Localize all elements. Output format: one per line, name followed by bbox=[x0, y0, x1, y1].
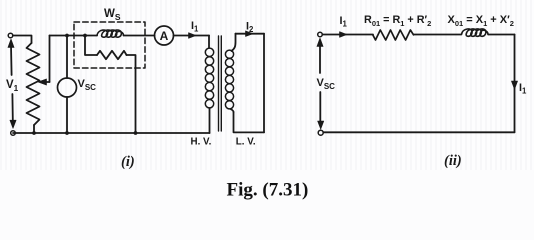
svg-text:A: A bbox=[160, 29, 169, 43]
terminal top-left (ii) bbox=[318, 32, 323, 37]
label V1 bbox=[6, 79, 19, 93]
transformer primary winding (H.V.) bbox=[205, 48, 213, 108]
wire: Vsc top lead bbox=[66, 36, 68, 79]
caption Fig. (7.31) bbox=[227, 180, 309, 201]
label R01 = R1 + R'2 bbox=[364, 14, 431, 28]
wattmeter pressure coil (zigzag) bbox=[97, 51, 127, 59]
arrow I2 bbox=[246, 31, 254, 37]
resistor R01 (zigzag) bbox=[373, 30, 414, 40]
voltmeter VSC bbox=[58, 78, 77, 97]
transformer core bbox=[219, 36, 222, 131]
label I1 right (ii) bbox=[519, 82, 527, 96]
node: Vsc tap bbox=[65, 34, 69, 38]
arrow I1 down (ii) bbox=[511, 81, 517, 89]
svg-text:Fig. (7.31): Fig. (7.31) bbox=[227, 180, 309, 201]
rheostat wiper arrow and feed wire bbox=[38, 36, 50, 86]
label I1 bbox=[191, 20, 199, 34]
inductor X01 (coil) bbox=[462, 29, 489, 36]
wattmeter pressure branch wire bbox=[85, 36, 97, 56]
right side wire with I1 arrow bbox=[514, 35, 516, 133]
label (ii) bbox=[444, 153, 462, 169]
svg-text:X01 = X1 + X′2: X01 = X1 + X′2 bbox=[448, 14, 514, 28]
label A bbox=[160, 29, 169, 43]
supply terminal top-left bbox=[8, 33, 13, 38]
V1 double-headed arrow line bbox=[8, 39, 16, 128]
node: Vsc bottom bbox=[65, 131, 69, 135]
label VSC (ii) bbox=[317, 77, 336, 91]
bottom wire (ii) bbox=[324, 131, 515, 133]
bottom rail wire bbox=[13, 132, 210, 134]
svg-text:H. V.: H. V. bbox=[191, 137, 212, 148]
arrow I1 (ii) bbox=[340, 32, 348, 38]
transformer secondary winding (L.V.) bbox=[225, 50, 233, 109]
label (i) bbox=[121, 154, 135, 170]
svg-text:(i): (i) bbox=[121, 154, 135, 170]
node: pressure coil bottom bbox=[134, 131, 138, 135]
wire: secondary short-circuit loop right side bbox=[263, 34, 265, 133]
wire: coil to box edge bbox=[124, 35, 155, 37]
node: pressure coil tap bbox=[83, 34, 87, 38]
wire: secondary top with I2 arrow bbox=[236, 33, 265, 35]
svg-text:WS: WS bbox=[104, 8, 121, 22]
wire: rheostat bottom to bottom rail bbox=[33, 125, 35, 133]
wire: pressure coil to bottom rail bbox=[127, 55, 136, 133]
wattmeter current coil bbox=[97, 30, 123, 37]
wire: top terminal to rheostat top bbox=[13, 36, 32, 44]
svg-text:VSC: VSC bbox=[78, 78, 97, 92]
supply terminal bottom-left bbox=[11, 131, 16, 136]
wire: secondary bottom lead curve bbox=[231, 109, 234, 112]
wire: secondary bottom bbox=[234, 112, 265, 132]
svg-text:I2: I2 bbox=[246, 21, 254, 35]
arrow I1 bbox=[189, 33, 197, 39]
svg-text:L. V.: L. V. bbox=[236, 137, 256, 148]
label I2 bbox=[246, 21, 254, 35]
label I1 (ii) bbox=[340, 15, 348, 29]
label WS bbox=[104, 8, 121, 22]
terminal bottom-left (ii) bbox=[318, 130, 323, 135]
wire: primary bottom lead bbox=[209, 108, 211, 133]
wire: resistor to inductor bbox=[414, 34, 462, 36]
node: rheostat bottom bbox=[32, 131, 36, 135]
wire: Vsc bottom lead bbox=[66, 97, 68, 133]
rheostat R (zigzag) bbox=[27, 43, 40, 125]
label H.V. bbox=[191, 137, 212, 148]
svg-text:I1: I1 bbox=[519, 82, 527, 96]
label L.V. bbox=[236, 137, 256, 148]
wire: ammeter to transformer with I1 arrow bbox=[174, 35, 210, 37]
svg-text:VSC: VSC bbox=[317, 77, 336, 91]
Vsc double-headed arrow line bbox=[317, 38, 324, 129]
top rail wire bbox=[50, 35, 98, 37]
top wire (ii) with I1 arrow bbox=[322, 34, 373, 36]
svg-text:I1: I1 bbox=[191, 20, 199, 34]
ammeter A bbox=[155, 26, 174, 45]
label X01 = X1 + X'2 bbox=[448, 14, 514, 28]
wattmeter dashed box bbox=[74, 22, 145, 68]
wire: inductor to right corner bbox=[488, 34, 514, 36]
svg-text:V1: V1 bbox=[6, 79, 19, 93]
wire: secondary top lead bbox=[232, 34, 236, 51]
wire: primary top lead bbox=[208, 36, 210, 49]
label VSC bbox=[78, 78, 97, 92]
svg-text:I1: I1 bbox=[340, 15, 348, 29]
svg-text:R01 = R1 + R′2: R01 = R1 + R′2 bbox=[364, 14, 431, 28]
svg-text:(ii): (ii) bbox=[444, 153, 462, 169]
